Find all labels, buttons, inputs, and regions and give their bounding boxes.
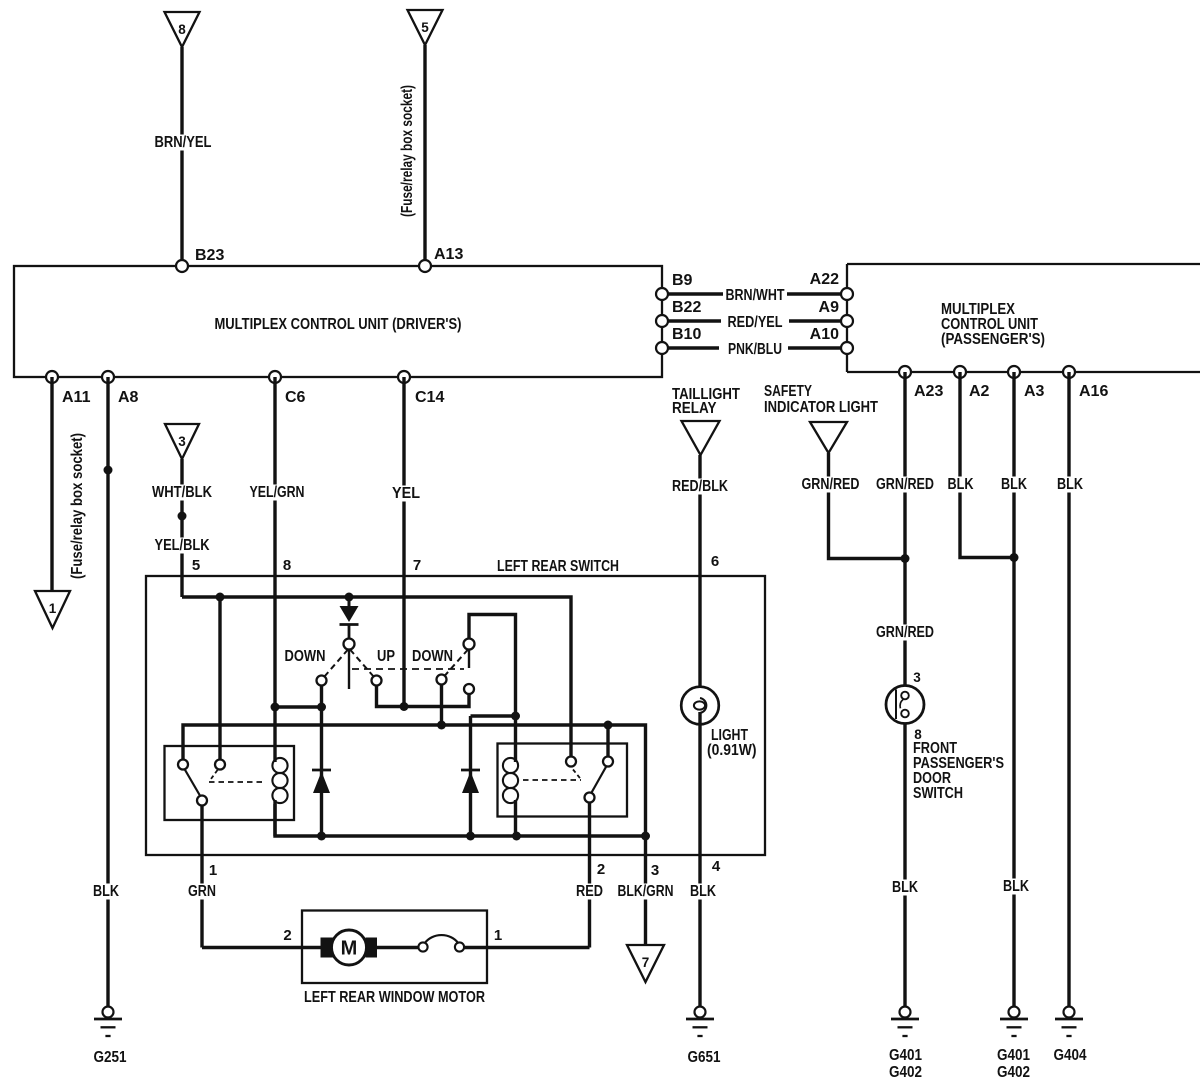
right relay arm [591, 766, 607, 794]
left rear switch box [146, 558, 765, 855]
svg-text:A3: A3 [1024, 383, 1045, 400]
junction GRN/RED [901, 554, 910, 563]
svg-text:LEFT REAR WINDOW MOTOR: LEFT REAR WINDOW MOTOR [304, 989, 485, 1006]
terminal A13 [419, 246, 463, 272]
multiplex control unit passenger's box [847, 264, 1200, 372]
junction bus B / D3 [466, 832, 475, 841]
wire bus A to right relay NO contact [606, 725, 609, 757]
splice on WHT/BLK wire [178, 512, 187, 521]
svg-text:BLK: BLK [1003, 878, 1029, 895]
connector 5 (fuse/relay box socket) [408, 10, 443, 45]
svg-text:A11: A11 [62, 389, 91, 406]
svg-text:3: 3 [651, 862, 659, 879]
connector 3 [165, 424, 199, 459]
motor M1 [321, 930, 378, 965]
ground G651 [686, 1007, 721, 1067]
terminal A2 [954, 366, 990, 400]
svg-text:BLK: BLK [1001, 476, 1027, 493]
svg-text:PNK/BLU: PNK/BLU [728, 341, 782, 358]
wire BLK from A8 to ground G251 [91, 377, 121, 1007]
right rocker arm [468, 650, 470, 669]
left relay NO contact [178, 760, 188, 770]
left relay dashed actuator [209, 770, 266, 782]
light bulb 0.91W [681, 687, 756, 759]
svg-text:BRN/WHT: BRN/WHT [726, 287, 785, 304]
left rocker dashed linkages [324, 650, 374, 678]
wire RED/YEL between B22 and A9 [668, 314, 841, 331]
terminal C14 [398, 371, 444, 406]
junction bus A / NO contact [604, 721, 613, 730]
svg-text:1: 1 [494, 927, 502, 944]
wire BLK from A3 to ground G401/G402 [999, 372, 1031, 1007]
svg-text:4: 4 [712, 858, 721, 875]
left relay K1 box [165, 746, 295, 820]
svg-text:B23: B23 [195, 247, 224, 264]
safety indicator light connector triangle [810, 422, 847, 453]
ground G251 [94, 1007, 127, 1067]
terminal B23 [176, 247, 224, 272]
multiplex control unit driver's box [14, 266, 662, 377]
wire BLK from A16 to ground G404 [1055, 372, 1085, 1007]
junction coil top [511, 712, 520, 721]
junction bus B / right coil [512, 832, 521, 841]
terminal A3 [1008, 366, 1045, 400]
right relay NO contact [603, 757, 613, 767]
svg-text:2: 2 [283, 927, 291, 944]
svg-text:8: 8 [178, 22, 186, 37]
svg-text:G251: G251 [94, 1049, 127, 1066]
rocker mechanical link dashed [352, 668, 464, 670]
svg-text:BLK: BLK [1057, 476, 1083, 493]
svg-text:BLK: BLK [93, 883, 119, 900]
connector 1 [35, 591, 70, 628]
right rocker pivot contact [464, 639, 475, 650]
svg-text:WHT/BLK: WHT/BLK [152, 484, 212, 501]
connector 8 (to fuse/relay box) [165, 12, 200, 47]
terminal A10 [810, 326, 853, 354]
wire from A11 to connector 1 [52, 377, 86, 591]
left relay K1 coil [272, 707, 287, 836]
ground bus A [183, 725, 646, 836]
diode D2 [312, 770, 331, 793]
right rocker DOWN contact [437, 675, 447, 685]
junction on A8 wire [104, 466, 113, 475]
pin 4 wire BLK to ground G651 [688, 712, 721, 1007]
svg-text:YEL/BLK: YEL/BLK [155, 537, 210, 554]
svg-text:RED: RED [576, 883, 603, 900]
svg-text:BLK: BLK [948, 476, 974, 493]
junction A2/A3 [1010, 553, 1019, 562]
svg-text:INDICATOR LIGHT: INDICATOR LIGHT [764, 399, 878, 416]
wire BLK from A2 [946, 372, 1015, 558]
svg-text:DOWN: DOWN [285, 648, 326, 665]
wire from connector 5 to A13 [399, 45, 425, 266]
wire BRN/YEL from connector 8 to B23 [153, 47, 214, 266]
svg-text:A13: A13 [434, 246, 463, 263]
svg-text:RELAY: RELAY [672, 400, 717, 417]
svg-text:A10: A10 [810, 326, 839, 343]
svg-text:A8: A8 [118, 389, 139, 406]
terminal A11 [46, 371, 91, 406]
wire GRN/RED from A23 to door switch [874, 372, 936, 686]
svg-text:YEL: YEL [392, 485, 420, 502]
right rocker lower contact [464, 684, 474, 694]
right relay NC contact [566, 757, 576, 767]
svg-text:YEL/GRN: YEL/GRN [250, 484, 305, 501]
junction bus B / pin 3 [641, 832, 650, 841]
svg-text:BRN/YEL: BRN/YEL [155, 134, 212, 151]
svg-text:(Fuse/relay box socket): (Fuse/relay box socket) [399, 85, 416, 217]
svg-text:M: M [341, 938, 358, 960]
svg-text:BLK/GRN: BLK/GRN [618, 883, 674, 900]
diode D1 [340, 597, 359, 639]
left rear window motor box [302, 911, 487, 984]
wire GRN/RED from safety indicator light [800, 453, 906, 559]
svg-text:SAFETY: SAFETY [764, 383, 812, 400]
svg-text:G401: G401 [997, 1047, 1030, 1064]
left rocker arm [348, 650, 350, 690]
svg-text:B9: B9 [672, 272, 693, 289]
terminal B9 [656, 272, 693, 300]
svg-text:DOWN: DOWN [412, 648, 453, 665]
pin 1 wire GRN to motor [186, 806, 321, 948]
junction pin8 branch [317, 703, 326, 712]
ground bus B [275, 804, 646, 836]
power line from pin 5 [182, 597, 571, 757]
door switch label [913, 740, 1004, 802]
wire right coil top link [471, 716, 516, 836]
svg-text:GRN/RED: GRN/RED [876, 624, 934, 641]
wire YEL from C14 to switch pin 7 [390, 377, 422, 707]
svg-text:7: 7 [642, 955, 650, 970]
svg-text:RED/YEL: RED/YEL [728, 314, 783, 331]
svg-text:SWITCH: SWITCH [913, 785, 963, 802]
junction pin5/diode D1 [345, 593, 354, 602]
svg-text:GRN/RED: GRN/RED [876, 476, 934, 493]
wire BRN/WHT between B9 and A22 [668, 287, 841, 304]
terminal C6 [269, 371, 306, 406]
svg-text:A9: A9 [819, 299, 840, 316]
circuit breaker in motor [377, 935, 464, 952]
junction pin5/left relay contact [216, 593, 225, 602]
svg-text:G401: G401 [889, 1047, 922, 1064]
svg-text:BLK: BLK [690, 883, 716, 900]
right relay K2 coil [503, 716, 518, 836]
terminal A22 [810, 271, 853, 300]
wire PNK/BLU between B10 and A10 [668, 341, 841, 358]
ground G404 [1054, 1007, 1087, 1065]
ground G401 G402 left [889, 1007, 922, 1082]
junction bus B / D2 [317, 832, 326, 841]
svg-text:8: 8 [283, 557, 291, 574]
terminal B10 [656, 326, 701, 354]
wire BLK from door switch to ground G401/G402 [890, 724, 920, 1007]
svg-text:GRN/RED: GRN/RED [802, 476, 860, 493]
svg-text:LEFT REAR SWITCH: LEFT REAR SWITCH [497, 558, 619, 575]
left relay NC contact [215, 760, 225, 770]
svg-text:A16: A16 [1079, 383, 1108, 400]
svg-text:UP: UP [377, 648, 395, 665]
wire YEL/GRN from C6 to switch pin 8 [248, 377, 307, 707]
junction bus A / rocker contact [437, 721, 446, 730]
wire DOWN contact to diode D2 and ground bus [320, 686, 323, 837]
right relay common contact [585, 793, 595, 803]
wire WHT/BLK / YEL/BLK from connector 3 to switch pin 5 [150, 459, 214, 597]
terminal A8 [102, 371, 139, 406]
svg-text:GRN: GRN [188, 883, 216, 900]
right rocker feed wire [469, 615, 516, 717]
terminal A23 [899, 366, 943, 400]
terminal A9 [819, 299, 853, 327]
wire UP contact to pin7 line [377, 686, 470, 707]
svg-text:3: 3 [913, 670, 921, 685]
pin 3 wire BLK/GRN to connector 7 [616, 836, 676, 945]
connector 7 [627, 945, 664, 982]
wire pin8 to junction [275, 705, 322, 708]
left relay common contact [197, 796, 207, 806]
svg-text:6: 6 [711, 553, 719, 570]
svg-text:A22: A22 [810, 271, 839, 288]
wire RED/BLK from taillight relay to light [670, 455, 730, 699]
diode D3 [461, 770, 480, 793]
svg-text:(PASSENGER'S): (PASSENGER'S) [941, 331, 1045, 348]
svg-text:B22: B22 [672, 299, 701, 316]
safety indicator light label [764, 383, 878, 416]
svg-text:7: 7 [413, 557, 421, 574]
left rocker UP contact [372, 676, 382, 686]
svg-text:(0.91W): (0.91W) [707, 742, 757, 759]
svg-text:5: 5 [192, 557, 200, 574]
wire to left relay NC contact [218, 597, 221, 760]
svg-text:1: 1 [209, 862, 217, 879]
svg-text:A2: A2 [969, 383, 990, 400]
front passenger's door switch S1 [886, 670, 924, 742]
terminal B22 [656, 299, 701, 327]
right rocker dashed linkage [444, 650, 468, 677]
left rocker DOWN contact [317, 676, 327, 686]
svg-text:RED/BLK: RED/BLK [672, 478, 728, 495]
left rocker pivot contact [344, 639, 355, 650]
junction pin8/coil [271, 703, 280, 712]
svg-text:C6: C6 [285, 389, 306, 406]
right relay K2 box [498, 744, 628, 817]
svg-text:G402: G402 [997, 1064, 1030, 1081]
taillight relay label [672, 386, 740, 417]
svg-text:BLK: BLK [892, 879, 918, 896]
wire DOWN contact to ground bus A [440, 685, 443, 726]
svg-text:B10: B10 [672, 326, 701, 343]
ground G401 G402 right [997, 1007, 1030, 1082]
svg-text:MULTIPLEX CONTROL UNIT (DRIVER: MULTIPLEX CONTROL UNIT (DRIVER'S) [215, 316, 462, 333]
svg-text:(Fuse/relay box socket): (Fuse/relay box socket) [69, 433, 86, 579]
svg-text:3: 3 [178, 434, 186, 449]
pin 2 wire RED to motor [464, 803, 605, 948]
svg-text:5: 5 [421, 20, 429, 35]
svg-text:1: 1 [49, 601, 57, 616]
taillight relay connector triangle [682, 421, 720, 455]
junction pin7 [400, 702, 409, 711]
left relay arm [185, 769, 201, 797]
svg-text:G404: G404 [1054, 1047, 1087, 1064]
svg-text:A23: A23 [914, 383, 943, 400]
svg-text:G402: G402 [889, 1064, 922, 1081]
terminal A16 [1063, 366, 1108, 400]
right relay dashed actuator [523, 770, 582, 781]
svg-text:G651: G651 [688, 1049, 721, 1066]
svg-text:C14: C14 [415, 389, 444, 406]
svg-text:2: 2 [597, 861, 605, 878]
